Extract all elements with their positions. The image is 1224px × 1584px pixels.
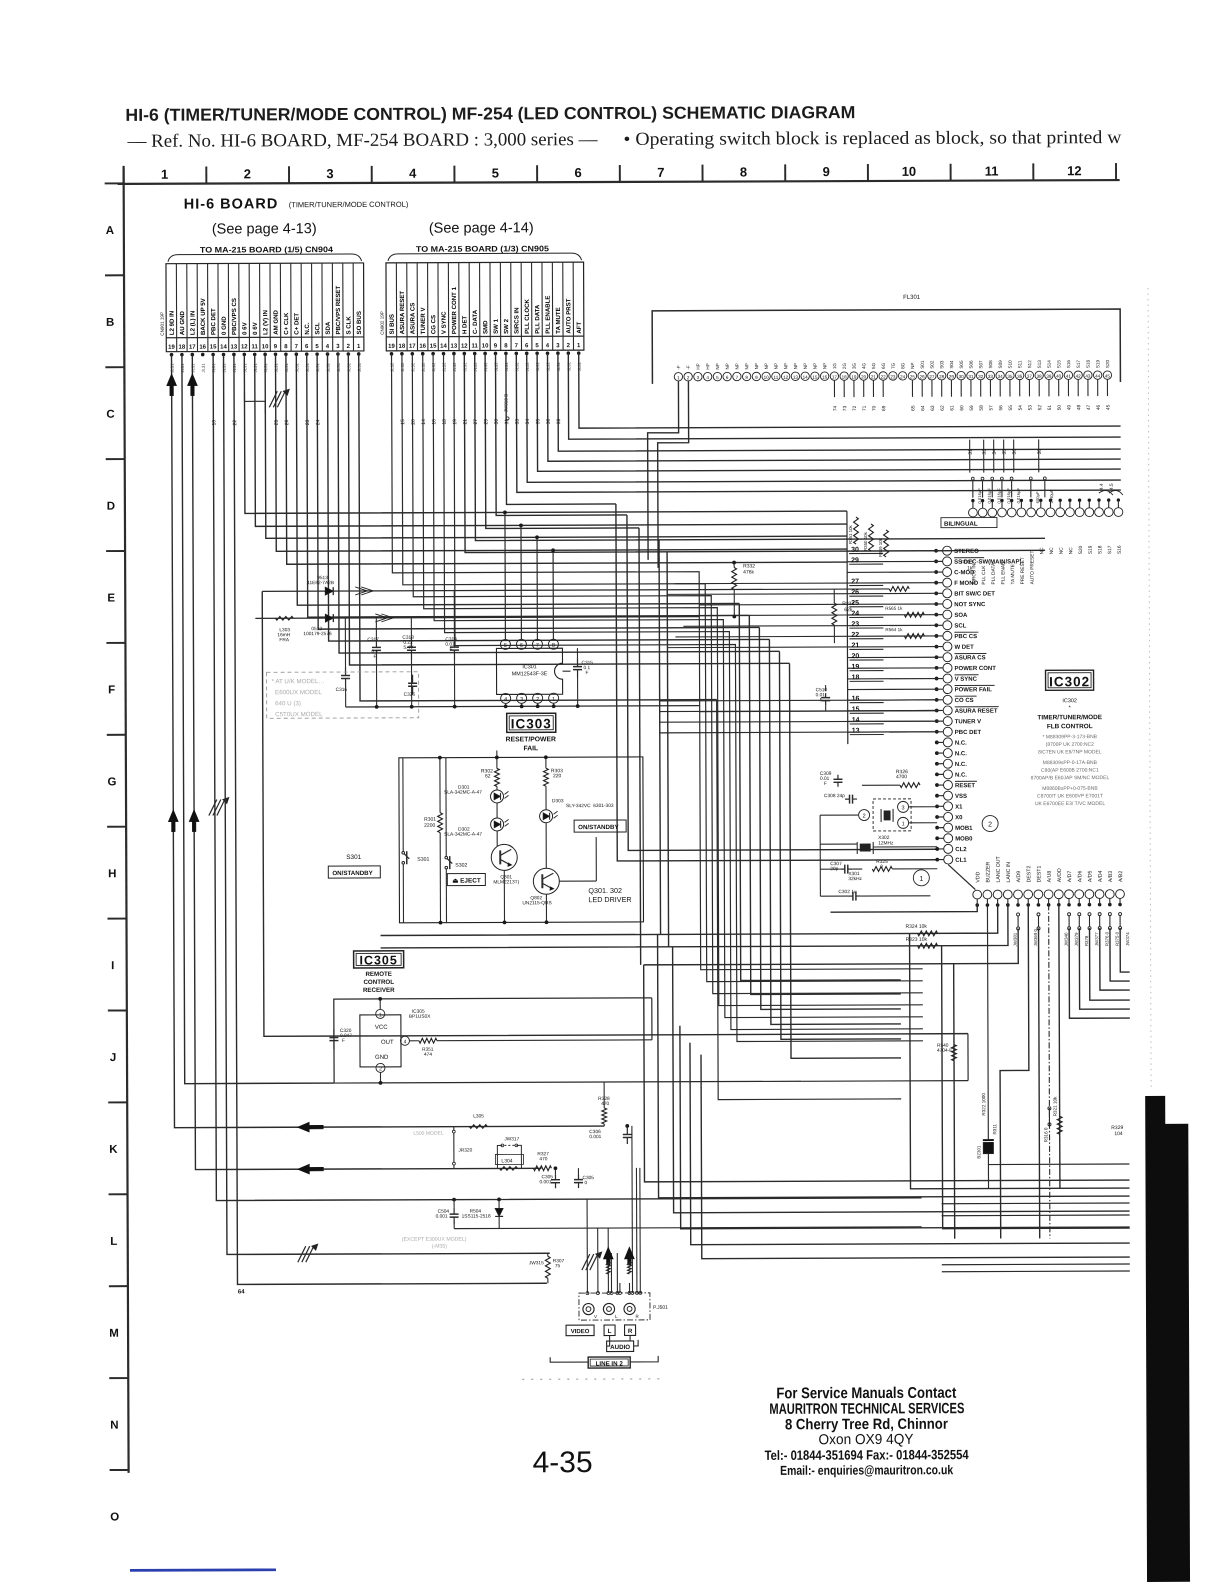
wire CN904 pin18 drop to IC305 rail [182,354,334,1084]
capacitor on IC302 top pin 6 [1029,477,1032,480]
IC302 ladder number 22 [849,638,883,640]
wire CN905 pin 13 deep drop [454,352,923,1043]
svg-text:S13: S13 [1037,360,1042,369]
svg-text:S09: S09 [998,360,1003,369]
svg-text:17: 17 [189,345,196,351]
IC302 pin POWER FAIL [943,685,952,694]
svg-text:470: 470 [601,1101,609,1107]
svg-text:640 U (3): 640 U (3) [272,700,301,707]
svg-text:PBC DET: PBC DET [210,308,217,335]
IC302 bottom pin DEST1 [1034,890,1043,899]
grid left tick [105,366,124,368]
ON/STANDBY label box left [328,866,380,878]
wire CN904 bus staircase B6 [348,352,789,665]
svg-text:R350 10k: R350 10k [863,531,868,551]
svg-text:SCL: SCL [314,322,321,334]
svg-text:LANC OUT: LANC OUT [996,855,1002,882]
FL301 pin 35 [1006,371,1014,379]
svg-text:1: 1 [902,821,905,827]
svg-text:ASURA RESET: ASURA RESET [955,709,998,715]
svg-text:R316 0: R316 0 [1043,1127,1048,1142]
svg-text:IC303: IC303 [511,716,552,731]
wire CN904 bus staircase B1 [296,353,739,606]
svg-text:M: M [109,1328,119,1340]
svg-text:37: 37 [1027,374,1033,379]
wire CN905 staircase pin 9 [496,353,627,516]
svg-text:S07: S07 [978,360,983,369]
svg-text:S17: S17 [1076,360,1081,369]
wire stair IC305 b [651,998,653,1040]
overline on pin label [955,695,977,697]
svg-text:CN902 19P: CN902 19P [380,311,385,335]
pin circle 2 [859,810,870,821]
wire LANC OUT left bus with resistor R324 [380,905,997,936]
svg-text:SLY-342VC 6301-303: SLY-342VC 6301-303 [566,803,614,809]
R label box [625,1325,636,1336]
wire CN905 staircase pin 4 [548,351,1121,461]
svg-text:27: 27 [929,374,935,379]
svg-text:MOB0: MOB0 [955,836,973,842]
svg-text:476k: 476k [743,569,754,575]
svg-text:1: 1 [919,876,923,883]
svg-text:N: N [110,1420,118,1432]
FL301 pin 13 [791,372,799,380]
svg-text:(-M35): (-M35) [432,1244,448,1250]
svg-text:0 GND: 0 GND [221,316,228,335]
wire left loop vertical right side [967,1034,969,1081]
svg-text:R311: R311 [992,1123,997,1134]
CN901 pin 5 junction dot [315,352,319,356]
resistor R327 470 [533,1166,551,1171]
IC302 lead extension left [667,646,847,649]
IC302 pin BIT SW/C DET [943,589,952,598]
svg-text:65: 65 [911,405,917,411]
svg-text:3: 3 [902,805,905,811]
svg-text:NP: NP [822,363,827,369]
svg-text:11: 11 [472,344,479,350]
svg-text:32: 32 [978,374,984,379]
svg-text:MLM2213T): MLM2213T) [493,879,519,885]
svg-text:ASURA CS: ASURA CS [954,655,985,661]
svg-text:PLL DATA: PLL DATA [534,304,541,334]
CN901 pin 9 junction dot [274,352,278,356]
svg-text:BILINGUAL: BILINGUAL [944,521,978,528]
svg-text:(EXCEPT E300UX MODEL): (EXCEPT E300UX MODEL) [402,1237,467,1243]
connector CN902 body [386,262,584,351]
IC302 pin PBC DET [943,727,952,736]
capacitor C308 24p [845,798,850,800]
FL301 pin 36 [1015,371,1023,379]
hatch mark on bus y1253 [298,1246,306,1262]
svg-text:20: 20 [851,653,859,660]
svg-text:K: K [109,1144,118,1156]
crystal X302 12MHz [860,844,870,851]
wire loop x256 CN904 pin9 drop [254,525,256,527]
capacitor C309 0.01F [837,775,839,780]
IC302 pin ASURA RESET [943,706,952,715]
svg-text:8/C7EN UK E8/7NP MODEL: 8/C7EN UK E8/7NP MODEL [1038,749,1102,755]
svg-text:-F: -F [676,365,681,370]
resistor R303 220 [544,768,549,786]
FL301 pin 44 [1093,371,1101,379]
stub labels 3.1-3.8 [969,440,971,473]
IC302 ladder number 13 [850,734,884,736]
resistor R564 1k on PBC CS lead [904,634,924,639]
svg-text:11: 11 [774,375,779,380]
jumper JW379 [1078,913,1081,916]
wire FL301 pin1 to left bus [647,381,679,560]
overline on pin label [954,557,984,559]
svg-text:S20: S20 [1105,359,1110,368]
svg-text:0.016μF: 0.016μF [977,488,982,504]
wire IC302 bottom pin A/D6 to right [1079,928,1130,1009]
IC302 pin PBC CS [943,631,952,640]
FL301 pin 15 [811,372,819,380]
jumper JW315 resistor R307 75 [545,1256,550,1278]
wire CN904 bus staircase B4 [328,352,770,641]
svg-text:19: 19 [168,345,175,351]
FL301 pin 17 [830,372,838,380]
svg-text:4: 4 [504,697,507,703]
svg-text:N.C.: N.C. [955,751,967,757]
CN902 pin 17 junction dot [411,352,415,356]
CN902 pin 1 junction dot [577,351,581,355]
long vertical x941 [942,945,1130,1229]
svg-text:0 6V: 0 6V [241,321,248,334]
CN901 pin 8 junction dot [284,352,288,356]
IC302 ladder number 29 [849,563,883,565]
svg-text:11: 11 [252,344,259,350]
svg-text:V: V [594,1314,597,1319]
svg-text:30: 30 [959,374,965,379]
CN901 pin 10 junction dot [263,353,267,357]
svg-text:VSS: VSS [955,794,967,800]
FL301 pin 26 [918,372,926,380]
svg-text:4: 4 [409,166,417,181]
svg-text:19: 19 [388,344,395,350]
blue pen line [130,1568,276,1571]
svg-text:HP: HP [705,363,710,369]
CN902 pin 2 junction dot [567,351,571,355]
svg-text:NP: NP [744,363,749,369]
CN902 pin 4 junction dot [546,351,550,355]
svg-text:0 6V: 0 6V [252,321,259,334]
page fold dotted line [1148,288,1151,1090]
svg-text:43: 43 [1085,374,1091,379]
IC302 pin CL2 [944,844,953,853]
IC305 reference label box [354,951,404,968]
diode D304 1SS115-2518 [498,1199,500,1208]
resistor R325 0 [872,867,892,872]
svg-text:FLB CONTROL: FLB CONTROL [1047,723,1093,730]
svg-text:2200: 2200 [424,823,435,829]
svg-text:S02: S02 [930,360,935,369]
IC302 ladder number 15 [850,712,884,714]
svg-text:R375 0: R375 0 [1115,931,1120,946]
FL301 pin 27 [928,372,936,380]
svg-text:AUDIO: AUDIO [610,1344,630,1351]
svg-text:S20: S20 [1078,545,1084,554]
IC302 ladder number 19 [850,670,884,672]
vertical bus x660 [659,540,661,935]
svg-text:F: F [108,684,115,696]
svg-text:ASURA RESET: ASURA RESET [399,291,406,335]
arrow up on pin19 wire [167,374,177,396]
EJECT label box [447,873,485,885]
svg-text:ON/STANDBY: ON/STANDBY [578,824,619,831]
svg-text:38: 38 [556,418,562,424]
svg-text:60: 60 [959,405,965,411]
FL301 pin 11 [772,372,780,380]
svg-text:6: 6 [574,165,581,180]
display tube FL301 outline [652,309,1120,384]
arrow left on bus y1126 [297,1122,323,1132]
svg-text:NOT SYNC: NOT SYNC [954,602,986,608]
svg-text:BUZZER: BUZZER [985,862,991,883]
svg-text:I: I [111,960,114,972]
svg-text:61: 61 [950,405,956,411]
long vertical x953 [953,964,955,1061]
circled numeral 1 [913,870,929,886]
svg-text:HP: HP [696,363,701,369]
wire VDD drop [830,905,977,913]
svg-text:* M88309PP-3-173-BNB: * M88309PP-3-173-BNB [1043,734,1098,740]
svg-text:36: 36 [546,418,552,424]
svg-text:2: 2 [379,1066,382,1072]
CN901 pin 4 junction dot [326,352,330,356]
wire CN905 staircase pin 12 [464,351,1045,552]
svg-text:S04: S04 [949,360,954,369]
long verticals center [717,699,902,1100]
IC302 pin VSS [943,791,952,800]
svg-text:L500 MODEL: L500 MODEL [413,1131,444,1137]
wire jack feeds [586,1199,588,1293]
svg-text:55: 55 [1008,405,1014,411]
BILINGUAL label box [941,518,997,528]
LINE IN 2 label box [588,1357,630,1368]
IC302 pin N.C. [943,749,952,758]
overline on pin label [955,684,995,686]
svg-text:47: 47 [1086,404,1092,410]
CN902 pin 10 junction dot [483,352,487,356]
CN902 pin 6 junction dot [525,352,529,356]
arrow up on pin17 wire [187,374,197,396]
capacitor C307 20p [840,868,845,870]
VIDEO label box [566,1325,594,1336]
svg-text:58: 58 [979,405,985,411]
svg-text:6: 6 [520,643,523,649]
bus joining lines right mid [381,934,658,935]
IC302 top pin row [969,508,978,517]
svg-text:E: E [107,593,115,605]
svg-text:18: 18 [852,674,860,681]
svg-text:TA MUTE: TA MUTE [1010,564,1016,584]
svg-text:21: 21 [851,642,859,649]
FL301 pin 10 [762,372,770,380]
svg-text:C308 24p: C308 24p [824,793,845,799]
svg-text:34: 34 [998,374,1004,379]
IC302 ladder number 25 [849,606,883,608]
svg-text:70: 70 [872,405,878,411]
LED D301 SLA-342MC-A-47 [490,790,503,803]
svg-text:14: 14 [421,419,427,425]
grid top ruler line [118,180,1120,184]
wire CN905 staircase pin 6 [527,351,1121,482]
jack J3 R [624,1303,635,1314]
grid left tick [109,1285,128,1287]
IC301 pin 6 [516,639,526,649]
svg-text:• Operating switch block is re: • Operating switch block is replaced as … [623,128,1122,150]
svg-text:AM GND: AM GND [273,309,280,334]
hatch mark near CN904 pin10 [269,391,277,407]
jumper JW317 dashed [501,1144,504,1147]
IC302 bottom pin A/D4 [1095,890,1104,899]
wire IC302 bottom pin A/B2 to right [1120,928,1130,972]
FL301 pin 4 [703,372,711,380]
svg-text:23: 23 [851,621,859,628]
svg-text:C80(AP E600B 2700:NC1: C80(AP E600B 2700:NC1 [1041,768,1099,774]
grid left tick [106,642,125,644]
svg-text:RECEIVER: RECEIVER [363,987,395,994]
IC302 pin STEREO [943,546,952,555]
switch S301 [402,851,405,854]
svg-text:X302: X302 [878,835,890,841]
wire CN904 bus staircase A5 [286,352,847,564]
svg-text:NP: NP [735,363,740,369]
svg-text:SLA-342MC-A-47: SLA-342MC-A-47 [444,831,482,837]
grid left tick [107,918,126,920]
svg-text:S08: S08 [988,360,993,369]
svg-text:R: R [628,1328,633,1335]
svg-text:R378: R378 [1084,935,1089,946]
capacitor C306 0.001 [626,1128,628,1135]
svg-text:REMOTE: REMOTE [365,971,392,978]
svg-text:13: 13 [451,344,458,350]
wire CN905 staircase pin 1 [579,351,1121,428]
svg-text:F: F [586,670,589,676]
svg-text:A/B2: A/B2 [1118,871,1124,882]
svg-text:34: 34 [525,419,531,425]
svg-text:10: 10 [902,164,917,179]
svg-text:18: 18 [442,419,448,425]
svg-text:0.001: 0.001 [539,1179,551,1185]
svg-text:64: 64 [920,405,926,411]
svg-text:F MONO: F MONO [954,581,978,587]
LED D302 SLA-342MC-A-47 [491,818,504,831]
CN902 pin 18 junction dot [400,352,404,356]
svg-text:10: 10 [764,375,770,380]
wire CN904 pin15 long drop [213,352,921,1201]
svg-text:19: 19 [852,664,860,671]
grid left tick [107,826,126,828]
svg-text:2: 2 [244,166,251,181]
svg-text:C: C [106,409,114,421]
svg-text:22: 22 [851,632,859,639]
FL301 pin 12 [781,372,789,380]
svg-text:0: 0 [584,1180,587,1186]
svg-text:34: 34 [992,449,998,455]
svg-text:(See page 4-14): (See page 4-14) [429,220,534,236]
buzzer BZ301 [983,1140,993,1154]
jumper loop on CN904 pin12 wire [244,391,265,413]
svg-text:BP1US0X: BP1US0X [409,1014,431,1020]
jumper R316 0 [1048,1107,1051,1110]
IC301 body MM12543F-3E [496,648,562,694]
svg-text:X1: X1 [955,805,963,811]
CN902 pin 7 junction dot [515,352,519,356]
AUDIO bracket wires [607,1336,610,1346]
capacitor on IC302 top pin 2 [981,477,984,480]
wire LANC IN left bus with resistor R323 [380,904,1008,947]
IC302 corner diagonal [948,865,975,890]
svg-text:R323 10k: R323 10k [906,937,928,943]
svg-text:3G: 3G [852,363,857,370]
IC302 bottom pin A/D9 [1014,890,1023,899]
svg-text:TIMER/TUNER/MODE: TIMER/TUNER/MODE [1037,714,1102,721]
svg-text:31: 31 [968,374,974,379]
wire IC303 top feed [496,750,498,757]
CN901 pin 18 junction dot [180,353,184,357]
overline on pin label [954,631,978,633]
IC302 ladder number 20 [849,659,883,661]
IC302 pin W DET [943,642,952,651]
svg-text:AVDD: AVDD [1057,868,1063,882]
svg-text:JW317: JW317 [504,1136,519,1142]
svg-text:CG CS: CG CS [430,315,437,334]
svg-text:62: 62 [485,773,491,779]
overline on pin label [955,706,999,708]
arrow up video jack line [603,1247,613,1265]
wire CN904 bus staircase A4 [276,352,848,551]
wire IC302 bottom pin A/D7 to right [1069,928,1130,1018]
svg-text:11E82-7A2B: 11E82-7A2B [307,580,334,586]
LED D303 SLY-342VC [540,810,553,823]
FL301 pin 39 [1045,371,1053,379]
wire left loop vertical x263 [262,589,968,1037]
CN901 pin 16 junction dot [201,353,205,357]
svg-text:A/D5: A/D5 [1088,871,1094,883]
resistor R351 474 [419,1038,437,1043]
IC301 pin risers to bus [504,512,506,639]
svg-text:NP: NP [754,363,759,369]
svg-text:SMD: SMD [482,320,489,334]
arrow up on pin19 wire row H [168,810,178,832]
IC302 lead extension left [667,593,847,596]
svg-text:74: 74 [833,405,839,411]
svg-text:C5T0UX MODEL: C5T0UX MODEL [272,711,323,718]
CN901 pin 19 junction dot [170,353,174,357]
svg-text:SIRCS IN: SIRCS IN [513,307,520,333]
svg-text:PLL CLK: PLL CLK [981,565,987,585]
CN901 pin 2 junction dot [347,352,351,356]
svg-text:A/D7: A/D7 [1067,871,1073,883]
IC302 pin X1 [944,802,953,811]
grid left tick [110,1469,129,1471]
svg-text:29: 29 [851,557,859,564]
jumper JW381 [1017,913,1020,916]
wire stair IC305 c [673,945,1130,1213]
svg-text:51: 51 [1047,405,1053,411]
svg-text:PBC/VPS CS: PBC/VPS CS [231,298,238,335]
IC302 lead extension left [683,625,847,628]
wire CN904 bus staircase B5 [338,352,780,653]
grid top tick [619,165,621,182]
IC302 ladder number 21 [849,648,883,650]
svg-text:LED DRIVER: LED DRIVER [588,895,631,904]
svg-text:STEREO: STEREO [954,549,979,555]
IC305 outer box [334,998,652,1083]
wire CN905 staircase pin 10 [485,353,639,529]
